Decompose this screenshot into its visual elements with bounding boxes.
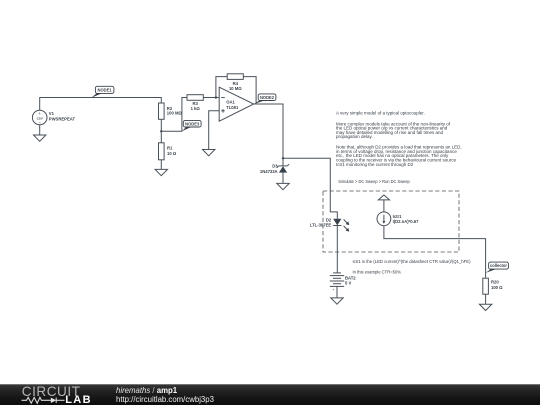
ground below battery: [331, 298, 343, 304]
battery BAT2: [330, 273, 356, 292]
node junction feedback/inverting input: [215, 96, 217, 98]
current source Ictr1: [377, 195, 419, 226]
wire LED bottom lead to battery: [336, 226, 338, 273]
footer bar: [0, 384, 540, 405]
resistor R1: [159, 143, 177, 160]
svg-text:NODE3: NODE3: [185, 122, 200, 127]
wire D3 bottom lead: [282, 173, 284, 184]
svg-text:A very simple model of a typic: A very simple model of a typical optocou…: [336, 111, 425, 116]
zener diode D3 1N4733A: [260, 164, 289, 174]
wire V1 bottom lead: [39, 125, 41, 135]
wire R3 to op-amp inverting input: [203, 97, 219, 99]
wire NODE1 net from V1 to R2 top: [40, 98, 162, 111]
wire feedback up and to R4: [216, 77, 227, 98]
node junction at D3: [282, 157, 284, 159]
svg-text:100 MΩ: 100 MΩ: [167, 111, 183, 116]
wire op-amp output to D3 junction: [254, 104, 283, 158]
wire D3 top lead: [282, 158, 284, 166]
svg-text:R1: R1: [167, 146, 173, 151]
svg-text:−: −: [38, 120, 41, 125]
svg-text:1N4733A: 1N4733A: [260, 169, 278, 174]
wire R4 to output: [243, 77, 256, 104]
svg-text:+: +: [38, 111, 41, 116]
node label NODE3: [182, 120, 201, 131]
svg-text:NODE1: NODE1: [98, 88, 113, 93]
wire current source to collector branch: [384, 226, 486, 279]
svg-text:V1: V1: [49, 111, 55, 116]
svg-text:propagation delay.: propagation delay.: [336, 134, 373, 139]
ground below R20: [479, 304, 491, 310]
node label collector: [486, 262, 509, 273]
wire R20 bottom lead: [485, 294, 487, 304]
ground below D3: [277, 183, 289, 189]
svg-text:I(D2.nA)*0.67: I(D2.nA)*0.67: [393, 219, 420, 224]
wire junction to NODE3 attach: [161, 98, 187, 132]
footer circuit title: [116, 386, 214, 404]
wire R1 bottom lead: [160, 160, 162, 170]
LED D2 LTL-307EE: [310, 217, 349, 231]
svg-text:TL081: TL081: [226, 105, 239, 110]
svg-text:OA1: OA1: [226, 99, 235, 104]
svg-text:1 kΩ: 1 kΩ: [191, 106, 201, 111]
wire D3 junction to LED branch: [283, 158, 337, 218]
svg-text:Ictr1 monitoring the current t: Ictr1 monitoring the current through D2: [336, 162, 414, 167]
svg-text:hiremaths / amp1: hiremaths / amp1: [116, 386, 178, 395]
resistor R20: [483, 278, 503, 294]
svg-text:10 Ω: 10 Ω: [167, 151, 177, 156]
wire R1 top lead: [160, 131, 162, 143]
node junction R2/R1/NODE3: [160, 130, 162, 132]
CircuitLab logo: [22, 384, 93, 405]
ground below V1: [34, 135, 46, 141]
svg-text:http://circuitlab.com/cwbj3p3: http://circuitlab.com/cwbj3p3: [116, 395, 214, 404]
svg-text:NODE2: NODE2: [260, 95, 275, 100]
svg-text:100 Ω: 100 Ω: [491, 285, 503, 290]
wire battery bottom lead: [336, 286, 338, 298]
svg-text:R20: R20: [491, 279, 499, 284]
resistor R2: [159, 103, 183, 119]
ground at op-amp non-inverting input: [203, 150, 215, 156]
svg-text:LTL-307EE: LTL-307EE: [310, 223, 332, 228]
svg-text:collector: collector: [490, 263, 507, 268]
dashed optocoupler boundary box: [323, 191, 459, 252]
svg-text:10 MΩ: 10 MΩ: [229, 86, 242, 91]
annotation CTR formula: [353, 259, 471, 274]
node label NODE2: [254, 94, 276, 104]
resistor R3: [187, 95, 203, 111]
wire R2 bottom lead: [160, 119, 162, 131]
voltage source V1 PWSREPEAT: [32, 110, 75, 125]
node label NODE1: [91, 86, 114, 97]
svg-text:5 V: 5 V: [345, 281, 351, 286]
op-amp OA1 TL081: [219, 87, 254, 121]
svg-text:D2: D2: [326, 217, 332, 222]
annotation text block: [336, 111, 462, 185]
svg-text:Ictr1 is the (LED current)^(th: Ictr1 is the (LED current)^(the datashee…: [353, 259, 471, 264]
svg-text:LAB: LAB: [65, 394, 92, 405]
ground below R1: [155, 169, 167, 175]
resistor R4: [227, 74, 243, 91]
svg-text:PWSREPEAT: PWSREPEAT: [49, 116, 76, 121]
svg-text:In this example CTR=50%: In this example CTR=50%: [353, 270, 402, 275]
svg-text:Simulate > DC Sweep > Run DC S: Simulate > DC Sweep > Run DC Sweep: [338, 179, 410, 184]
wire non-inverting input to ground: [209, 111, 220, 150]
